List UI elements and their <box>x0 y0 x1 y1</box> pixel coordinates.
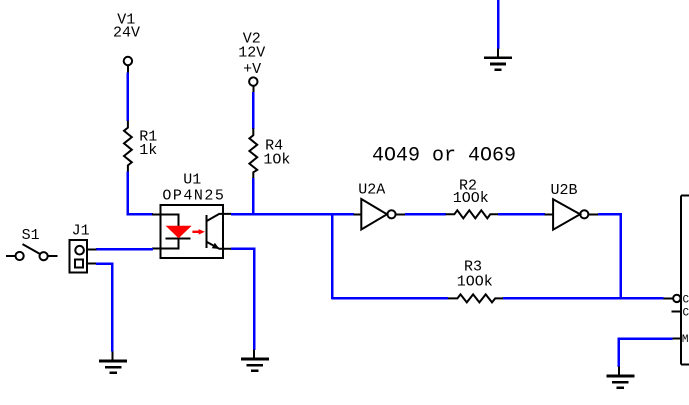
wire V1 to R1 <box>127 72 130 121</box>
U1 LED wiring <box>161 214 179 248</box>
label V2 <box>238 31 265 78</box>
svg-text:4O49 or 4O69: 4O49 or 4O69 <box>372 145 516 168</box>
switch S1 <box>6 244 58 260</box>
wire main net branch down <box>331 213 334 299</box>
svg-text:1OOk: 1OOk <box>457 274 493 291</box>
wire R2 to U2B <box>498 213 545 216</box>
svg-text:U2A: U2A <box>358 182 385 199</box>
wire U2B out feedback <box>598 214 621 299</box>
resistor R3 <box>448 294 504 302</box>
resistor R1 <box>124 121 132 172</box>
svg-text:U2B: U2B <box>550 182 577 199</box>
inverter U2B <box>544 199 598 230</box>
ground (bottom right) <box>606 367 634 388</box>
wire U2A out to R2 <box>405 213 446 216</box>
ground (below J1) <box>99 352 127 373</box>
IC pin 1 (circle) <box>664 295 681 302</box>
svg-text:+V: +V <box>243 61 261 78</box>
wire J1 pin1 to U1 <box>96 248 153 251</box>
IC box (right edge) <box>681 196 689 365</box>
IC pin 2 stub <box>672 311 682 313</box>
label V1 <box>113 11 140 41</box>
wire main net (U1 collector to U2A input) <box>231 213 354 216</box>
label R3 <box>457 259 493 291</box>
U1 LED cathode bar <box>166 237 191 239</box>
wire V2 to R4 <box>252 92 255 129</box>
label R2 <box>453 177 489 207</box>
svg-text:OP4N25: OP4N25 <box>162 187 225 204</box>
U1 pin 1 stub <box>152 213 160 215</box>
wire R4 to main net <box>252 178 255 214</box>
ground (top) <box>484 48 512 69</box>
label U1 <box>162 172 225 205</box>
label R4 <box>263 138 290 169</box>
U1 phototransistor <box>206 214 231 249</box>
wire R3 row left <box>331 297 448 300</box>
wire J1 pin2 to ground <box>96 264 112 352</box>
IC pin 3 stub <box>673 338 682 340</box>
svg-text:M: M <box>682 334 689 346</box>
svg-text:1OOk: 1OOk <box>453 190 489 207</box>
label R1 <box>139 129 157 159</box>
terminal V1 <box>124 57 132 73</box>
svg-text:1Ok: 1Ok <box>263 151 290 168</box>
svg-text:1k: 1k <box>139 142 157 159</box>
wire top to ground <box>497 0 500 49</box>
U1 pin 2 stub <box>152 248 160 250</box>
wire U1 emitter to ground <box>231 249 254 350</box>
svg-text:J1: J1 <box>72 222 90 239</box>
optocoupler U1 box <box>161 205 223 258</box>
svg-text:24V: 24V <box>113 25 140 42</box>
U1 light arrow <box>192 229 205 235</box>
resistor R2 <box>446 210 499 218</box>
svg-text:12V: 12V <box>238 45 265 62</box>
ground (below U1) <box>241 350 269 371</box>
inverter U2A <box>353 199 405 230</box>
svg-text:C: C <box>683 308 689 320</box>
wire R1 to U1 pin1 <box>128 171 153 214</box>
svg-text:C: C <box>683 295 689 307</box>
terminal V2 <box>249 77 257 92</box>
svg-text:S1: S1 <box>22 227 40 244</box>
resistor R4 <box>249 128 257 178</box>
U1 LED triangle <box>166 226 192 239</box>
wire R3 row right <box>503 297 664 300</box>
wire MCLR to ground <box>619 339 673 368</box>
connector J1 <box>69 240 96 272</box>
svg-text:U1: U1 <box>183 172 201 189</box>
